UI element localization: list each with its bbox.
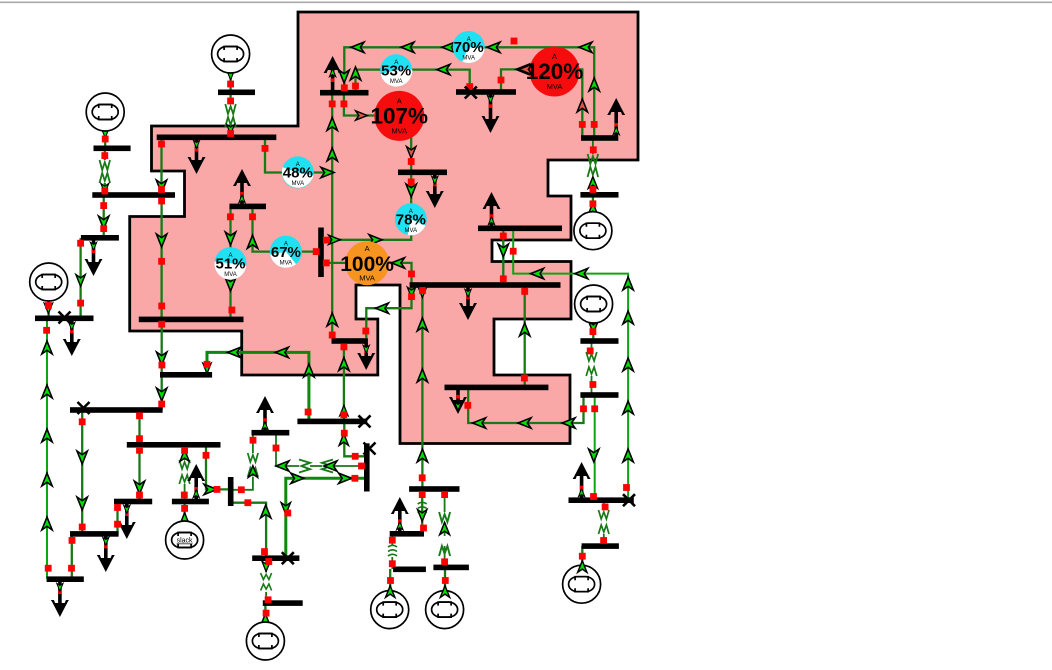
bus B10: [172, 499, 209, 505]
load on bus B433 (up): [256, 396, 274, 431]
line 67pct bus B32 to bus V0: [253, 206, 319, 251]
flow arrows on line B7-B14: [42, 341, 52, 530]
load on bus B21 (up): [573, 462, 591, 499]
transformer bus B36 to bus BG4: [588, 138, 599, 195]
bus B18: [390, 531, 424, 537]
bus B1: [218, 90, 255, 96]
line bus B5 to bus B319: [160, 195, 162, 319]
flow arrows on line 67pct: [247, 235, 257, 248]
flow arrow on line B25-B28: [376, 303, 389, 313]
flow arrows on line B228-B21: [531, 268, 634, 462]
bus V0 (vertical): [318, 228, 324, 278]
flow arrows on line B319-B8: [157, 352, 167, 401]
svg-text:slack: slack: [177, 538, 193, 545]
pie indicator 100pct: [340, 241, 394, 285]
svg-text:107%: 107%: [371, 104, 429, 129]
generator G10: [563, 565, 601, 603]
breaker squares (red): [43, 38, 630, 617]
line bus B24 to bus B26: [468, 390, 583, 423]
line bus B25 to bus B28: [366, 285, 411, 338]
bus B33: [160, 372, 212, 378]
flow arrows on line B5-B6: [99, 216, 109, 229]
flow arrows on transformer B17-B20: [440, 522, 450, 534]
line 53pct bus B31 to bus B35: [356, 70, 470, 93]
bus B26: [445, 385, 549, 391]
flow arrows on line 107pct: [356, 111, 416, 158]
bus V1 (vertical): [364, 443, 370, 491]
line bus B6 to bus B7: [79, 238, 81, 318]
flow arrow B19-G8: [386, 588, 395, 600]
green arrowheads at load bases: [57, 69, 620, 592]
flow arrows on line 120pct: [516, 64, 588, 112]
pie indicator 53pct: [380, 54, 412, 86]
svg-text:MVA: MVA: [391, 126, 407, 135]
generator G2: [86, 93, 124, 131]
svg-text:78%: 78%: [396, 212, 426, 229]
bus B14: [47, 576, 84, 582]
svg-text:MVA: MVA: [359, 274, 375, 283]
zone area (pink region): [130, 12, 638, 444]
line bus B12 to bus B14: [71, 534, 73, 579]
flow arrows on line 78pct: [329, 184, 417, 245]
line bus B9 to bus V2: [206, 445, 228, 489]
bus B37: [398, 170, 447, 176]
flow arrows on line B25-B17: [417, 287, 427, 462]
svg-text:MVA: MVA: [280, 260, 293, 266]
bus B24: [580, 392, 618, 398]
line bus B2 to bus B5: [160, 137, 162, 195]
flow arrows on line 51pct: [225, 232, 235, 291]
wire bus B22 to generator G10: [581, 546, 583, 566]
flow arrows on B36-BG4-G4 chain: [588, 177, 597, 215]
load on bus B12: [97, 535, 115, 572]
line bus B11 to bus B12: [116, 501, 118, 534]
flow arrow on line B9-V2: [204, 484, 217, 494]
bus B12: [70, 531, 119, 537]
line bus B5 to bus B6: [103, 195, 105, 238]
bus B3: [94, 146, 131, 152]
line bus B228 to bus B25: [502, 228, 504, 285]
wire bus BG4 to generator G4: [592, 195, 594, 213]
flow arrow G5 chain: [589, 322, 598, 334]
line 107pct bus B31 to bus B37: [344, 93, 411, 173]
load on bus B11: [118, 503, 136, 539]
line 78pct bus B37 to bus V0: [323, 172, 411, 240]
svg-text:MVA: MVA: [462, 56, 475, 62]
bus B28: [332, 338, 368, 344]
flow arrows on line B28-Bmid: [339, 358, 349, 416]
line 120pct bus B35 to bus B36: [501, 69, 582, 138]
svg-text:A: A: [365, 244, 370, 253]
flow arrows on line B8-B12: [77, 451, 87, 510]
flow arrows on B15-B16-G7: [261, 561, 271, 625]
load on bus B6: [85, 240, 103, 276]
line bus B31 to bus B28: [331, 93, 333, 338]
generator G7: [246, 622, 284, 660]
svg-text:100%: 100%: [340, 253, 394, 276]
svg-text:MVA: MVA: [405, 228, 418, 234]
flow arrows on line 100pct: [392, 258, 405, 268]
line bus B25 to bus B17: [421, 285, 423, 489]
flow arrows on line B24-B26: [473, 418, 575, 428]
pie indicator 120pct: [526, 47, 584, 97]
bus B15: [252, 555, 299, 561]
bus B19: [393, 567, 426, 573]
load on bus B36 (up): [607, 98, 625, 137]
flow arrow on line B17-B18: [418, 510, 427, 522]
pie indicator 107pct: [371, 91, 429, 141]
flow arrows on G2 chain: [101, 129, 109, 193]
generator G9: [426, 591, 464, 629]
generator G3: [30, 263, 68, 301]
transformer bus B17 to bus B18: [418, 489, 427, 534]
bus B9: [127, 442, 221, 448]
flow arrow on line B228-B25: [498, 244, 508, 257]
flow arrow on transformer V1-B433: [276, 461, 337, 471]
wire bus B10 to slack generator: [183, 501, 185, 523]
flow arrow below B25 left: [407, 287, 415, 297]
line bus V1 to bus B15: [286, 478, 364, 558]
transformer chain bus B9 to bus B10: [179, 445, 190, 501]
flow arrows on line 53pct: [350, 64, 450, 80]
wire G1 to bus B1: [229, 71, 231, 92]
bus B23: [580, 338, 618, 344]
line bus V2 to bus B15: [234, 503, 267, 558]
transformer bus B15 to bus B16: [261, 558, 272, 603]
flow arrow B16 bottom: [44, 303, 52, 313]
load on bus B10 (up): [187, 464, 205, 500]
flow arrow B20-G9: [440, 588, 449, 600]
load on bus B35: [482, 94, 500, 133]
load on bus B28: [357, 343, 375, 370]
flow arrow on line B25-B26: [520, 323, 530, 336]
wire bus B19 to generator G8: [389, 569, 391, 591]
flow arrow on line Bmid-V1: [339, 434, 348, 446]
bus B228: [478, 226, 562, 232]
flow arrows on slack chain: [180, 450, 189, 525]
line 51pct bus B32 to bus B319: [229, 206, 231, 319]
bus B5: [92, 192, 175, 198]
flow arrow on B22-G10: [578, 562, 587, 574]
bus B6: [81, 235, 119, 241]
line bus Bmid to bus V1: [344, 421, 364, 456]
load on bus B18 (up): [391, 497, 409, 532]
line bus B9 to bus B11: [138, 445, 140, 501]
line bus B8 to bus B9: [138, 410, 140, 445]
flow arrows on line 48pct: [321, 118, 337, 178]
load on bus B31 (up): [324, 56, 342, 91]
svg-text:48%: 48%: [283, 165, 313, 182]
line 48pct bus B2 to bus B31: [265, 137, 332, 173]
pie indicator 78pct: [395, 203, 427, 235]
line bus B25 to bus B26: [524, 285, 526, 387]
load on bus B2: [188, 139, 206, 174]
flow arrow on B433-V2 chain: [248, 466, 257, 478]
flow arrows on line B2-B5, B5-B319: [156, 180, 167, 247]
bus B20: [433, 565, 469, 571]
generator G5: [575, 285, 613, 323]
transformer chain bus B433 to bus V2: [234, 433, 259, 490]
wire bus B20 to generator G9: [444, 567, 446, 591]
transformer bus B17 to bus B20: [439, 489, 450, 567]
generator G1: [212, 35, 250, 73]
transformer bus B23 to bus B24: [586, 341, 597, 395]
svg-text:MVA: MVA: [390, 79, 403, 85]
line bus B228 to bus B21: [513, 228, 628, 500]
generator G4: [574, 212, 612, 250]
load on bus B37: [426, 174, 444, 208]
transformer bus B18 to bus B19: [388, 534, 397, 569]
flow arrows on line V1-B15: [281, 473, 351, 514]
pie indicator 67pct: [270, 236, 302, 268]
line bus B319 to bus B33 to bus B8: [161, 319, 163, 410]
bus B2: [157, 135, 277, 141]
svg-text:120%: 120%: [526, 59, 584, 84]
line bus B7 to bus B14: [46, 318, 48, 579]
wire generator G5 to bus B23: [592, 322, 594, 341]
flow arrow on line B24-B21: [589, 449, 599, 462]
transformer line bus V1 to bus B433: [276, 433, 364, 473]
load on bus B26: [449, 389, 467, 414]
line bus B28 to bus Bmid: [343, 341, 345, 421]
line top bus B31 to bus B36: [344, 47, 594, 138]
pie indicator 51pct: [214, 247, 246, 280]
bus B16: [263, 600, 303, 606]
line bus B8 to bus B12: [81, 410, 83, 534]
bus B11: [114, 499, 152, 505]
pie indicator 48pct: [282, 156, 314, 188]
bus BG4: [580, 192, 618, 198]
bus B7: [35, 316, 94, 322]
bus B36: [581, 135, 618, 141]
load on bus B32 (up): [233, 169, 251, 205]
flow arrow on 120pct line over circle: [519, 64, 532, 74]
bus B433: [252, 430, 290, 436]
svg-text:51%: 51%: [215, 255, 245, 272]
svg-text:53%: 53%: [381, 63, 411, 80]
flow arrow G1 chain: [227, 71, 235, 134]
flow arrows at generator terminals: [386, 561, 587, 598]
bus B22: [582, 543, 619, 549]
flow arrow B6-B7: [76, 275, 85, 287]
flow arrows on line B31-B28: [327, 70, 349, 326]
bus B32: [230, 204, 267, 210]
line 100pct bus V0 to bus B25: [323, 263, 412, 285]
transformer T1 bus B1 to bus B2: [225, 92, 236, 137]
bus B31: [320, 90, 369, 96]
bus B8: [70, 407, 163, 413]
svg-text:67%: 67%: [271, 244, 301, 261]
flow arrow on line B9-B11: [134, 481, 144, 494]
bus B25: [410, 282, 561, 288]
wire G3 to bus B7: [47, 299, 49, 318]
flow arrows on line B31-B36 top: [351, 42, 599, 91]
transformer bus B21 to bus B22: [599, 500, 610, 546]
bus B21: [569, 497, 634, 503]
top window border: [0, 2, 1052, 4]
svg-text:MVA: MVA: [224, 272, 237, 278]
svg-text:70%: 70%: [454, 39, 484, 56]
pie indicator 70pct: [453, 31, 485, 63]
line bus B319 to bus B33: [207, 352, 309, 421]
generator G6 slack: [166, 521, 204, 559]
load on bus B228 (up): [483, 192, 501, 227]
svg-text:MVA: MVA: [547, 82, 563, 91]
transformer T2 bus B3 to bus B5: [100, 148, 111, 195]
svg-text:MVA: MVA: [292, 181, 305, 187]
bus tie X marks: [59, 87, 636, 565]
bus V2 (vertical): [228, 477, 234, 506]
load on bus B14: [51, 581, 69, 617]
bus B17: [409, 486, 459, 492]
wire G2 to bus B3: [104, 129, 106, 148]
flow arrows on line B319-B33: [203, 347, 314, 377]
line bus B24 to bus B21: [594, 395, 596, 500]
bus B35: [456, 89, 516, 95]
flow arrow on line V2-B15: [261, 505, 271, 518]
bus Bmid: [297, 419, 367, 425]
load on bus B25: [459, 287, 477, 320]
wire bus B16 to generator G7: [264, 603, 266, 623]
generator G8: [371, 591, 409, 629]
bus B319: [139, 317, 244, 323]
load on bus B7: [63, 320, 81, 356]
